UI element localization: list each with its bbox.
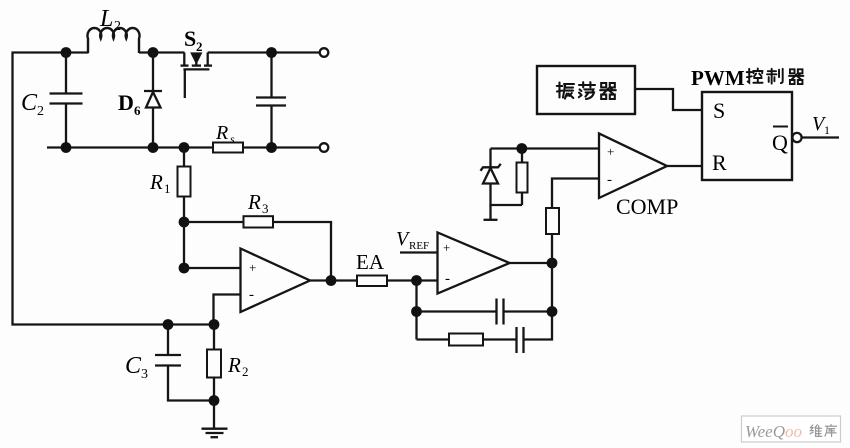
wire: EA resistor to U2 - input [387,279,438,281]
node: R1 bottom junction [179,217,190,228]
label Q-bar output [772,127,788,156]
wire: feedback column from - input [415,281,417,340]
svg-text:S: S [713,98,725,123]
wire: Rs to bottom terminal [243,146,320,148]
label PWM controller title [691,66,803,90]
node: U2 output [547,258,558,269]
svg-text:3: 3 [262,201,269,216]
node: bottom rail at D6 [148,142,159,153]
wire: R3 to op-amp output node [273,222,331,281]
node: top rail at D6 [148,47,159,58]
wire: oscillator to S input [635,89,702,110]
node: sense line at C3 [163,319,174,330]
resistor R3 [244,216,274,227]
wire: resistor to COMP - input [552,179,599,209]
wire: node to op-amp U1 + input [184,267,241,269]
wire: top rail input segment [12,51,89,53]
node: bottom rail at C2 [61,142,72,153]
label oscillator 振荡器 [557,82,616,99]
resistor R1 [178,148,191,223]
oscillator box [537,66,635,114]
svg-text:C: C [21,90,38,116]
wire: L2 to S2 [139,51,185,53]
bubble: inverted output [792,133,801,142]
ground: main [202,401,228,438]
node: feedback mid right [547,306,558,317]
capacitor feedback upper [417,299,553,325]
svg-text:S: S [184,26,196,51]
svg-text:6: 6 [134,103,141,118]
svg-text:+: + [249,260,256,275]
svg-text:Q: Q [772,130,788,155]
wire: VREF to U2 + input [400,251,438,253]
node: bottom rail at output capacitor [266,142,277,153]
capacitor C2 [50,53,83,148]
capacitor output filter [256,53,286,148]
PWM controller box [702,92,792,180]
svg-text:+: + [443,240,450,255]
svg-text:R: R [247,190,261,214]
svg-text:s: s [230,132,235,146]
capacitor feedback lower [483,312,552,354]
node: feedback mid left [411,306,422,317]
svg-text:EA: EA [356,250,385,274]
capacitor C3 [155,325,214,401]
svg-text:L: L [99,6,113,32]
svg-text:-: - [445,271,450,287]
resistor COMP minus input [546,208,559,234]
node: bottom rail at R1 [179,142,190,153]
node: U2 - input junction [411,275,422,286]
inductor L2 [87,28,139,53]
op-amp U2 error amplifier [438,233,510,294]
comparator COMP [599,134,667,199]
svg-text:1: 1 [824,123,830,137]
svg-text:1: 1 [164,181,171,196]
terminal: output negative [320,143,329,152]
wire: output node up to COMP resistor [551,234,553,312]
node: top rail at C2 [61,47,72,58]
transistor S2 (MOSFET switch) [181,53,213,99]
diode D6 [144,53,162,148]
zener diode reference [481,149,523,206]
node: sense line at R2 [209,319,220,330]
svg-text:REF: REF [409,240,429,252]
node: COMP + rail at divider [516,143,527,154]
op-amp U1 [241,249,311,313]
resistor Rs [213,143,243,153]
wire: bottom rail left segment [47,146,213,148]
node: op-amp + input branch [179,263,190,274]
wire: S2 to output terminal [208,51,320,53]
wire: U2 output [510,262,553,264]
node: ground junction [209,395,220,406]
svg-text:2: 2 [242,364,249,379]
wire: op-amp U1 output [310,279,357,281]
resistor R2 [207,325,221,401]
wire: junction to R3 [184,221,244,223]
svg-text:2: 2 [37,104,44,119]
wire: left feedback loop (top rail to bottom sense line) [13,53,215,325]
resistor reference bias [517,149,528,206]
svg-text:R: R [215,122,228,144]
wire: V1 output [802,136,839,138]
svg-text:R: R [149,170,163,194]
ground: reference [484,205,498,220]
svg-text:C: C [125,353,142,379]
svg-text:D: D [118,90,134,115]
terminal: output positive [320,48,329,57]
node: U1 output / R3 feedback [326,275,337,286]
watermark box [742,416,841,442]
svg-text:PWM: PWM [691,66,745,90]
wire: junction down to op-amp + input [183,222,185,268]
svg-text:COMP: COMP [616,194,678,219]
svg-text:-: - [249,287,254,303]
svg-text:2: 2 [196,39,203,54]
svg-text:3: 3 [141,367,148,382]
svg-text:+: + [607,144,614,159]
resistor feedback lower [417,334,484,346]
svg-text:WeeQoo: WeeQoo [745,422,802,441]
node: top rail at output capacitor [266,47,277,58]
resistor EA input [357,276,387,287]
svg-text:-: - [607,172,612,188]
wire: COMP output to R input [667,165,702,167]
wire: op-amp U1 - input [214,295,241,325]
svg-text:2: 2 [114,19,121,34]
svg-text:R: R [712,150,727,175]
wire: COMP + input rail [491,147,600,149]
svg-text:R: R [227,353,241,377]
